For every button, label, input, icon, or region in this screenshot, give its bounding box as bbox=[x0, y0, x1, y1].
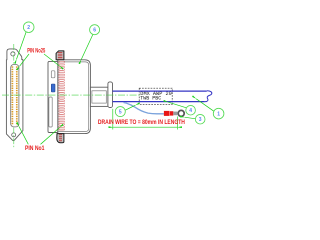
front view top screw hole bbox=[11, 52, 15, 56]
cable break squiggle bbox=[205, 91, 212, 102]
balloon 5 bbox=[115, 107, 125, 117]
dimension line bbox=[113, 126, 177, 128]
dimension extension line left bbox=[112, 109, 114, 130]
PIN No25 leader left bbox=[20, 54, 29, 66]
svg-text:TWB PBC: TWB PBC bbox=[140, 96, 161, 102]
terminal neck gray bbox=[173, 112, 177, 116]
balloon 4 bbox=[186, 105, 196, 115]
flange slot upper bbox=[51, 71, 55, 78]
svg-text:1: 1 bbox=[217, 111, 220, 117]
front view bottom screw hole bbox=[12, 133, 16, 137]
strain relief collar bbox=[108, 82, 113, 108]
bottom thumbscrew knob bbox=[57, 134, 64, 143]
balloon 6 bbox=[90, 25, 100, 35]
PIN No25 leader right bbox=[44, 54, 60, 66]
balloon 3 bbox=[195, 114, 205, 124]
side view front flange bbox=[48, 61, 58, 132]
cable top edge bbox=[113, 90, 207, 92]
balloon 2 bbox=[23, 22, 34, 33]
balloon 4 leader bbox=[168, 102, 187, 108]
front view pin slot bbox=[11, 65, 19, 127]
PIN No1 leader left bbox=[19, 127, 28, 145]
top wire clamp knob bbox=[56, 51, 64, 60]
drain wire bbox=[124, 103, 164, 114]
svg-text:PIN No25: PIN No25 bbox=[27, 48, 45, 54]
connector J1 front view body bbox=[6, 49, 23, 141]
connector side view body bbox=[58, 60, 91, 134]
svg-text:4: 4 bbox=[189, 108, 192, 114]
dimension extension line right bbox=[177, 117, 179, 130]
cable marking label box bbox=[139, 88, 172, 104]
flange latch (blue) bbox=[51, 84, 55, 92]
balloon 1 leader bbox=[196, 99, 214, 111]
svg-text:PIN No1: PIN No1 bbox=[25, 146, 45, 152]
flange slot lower tall bbox=[49, 97, 52, 127]
side view pin column left dashed edge bbox=[58, 61, 60, 131]
svg-text:DRAIN WIRE TO = 80mm IN LENGTH: DRAIN WIRE TO = 80mm IN LENGTH bbox=[98, 119, 185, 126]
svg-text:2: 2 bbox=[27, 25, 30, 31]
balloon 6 leader bbox=[81, 34, 93, 59]
balloon 2 leader bbox=[17, 32, 27, 59]
cable exit neck inner bbox=[92, 91, 106, 103]
centerline vertical lower (front view) bbox=[13, 128, 15, 148]
side view pin column (red) rungs bbox=[59, 61, 63, 131]
centerline vertical upper (front view) bbox=[13, 44, 15, 64]
side view pin column right dashed edge bbox=[63, 61, 65, 131]
ring terminal bbox=[178, 110, 184, 116]
cable exit neck outer bbox=[90, 87, 108, 106]
PIN No1 leader right bbox=[41, 128, 60, 145]
centerline horizontal bbox=[2, 94, 140, 96]
balloon 1 bbox=[213, 108, 224, 119]
pin column left (orange) bbox=[11, 66, 13, 125]
svg-text:6: 6 bbox=[93, 28, 96, 34]
svg-text:3: 3 bbox=[199, 117, 202, 123]
balloon 3 leader bbox=[185, 117, 196, 119]
redraw cable lines over box bbox=[139, 90, 173, 92]
crimp terminal red part bbox=[164, 111, 170, 116]
svg-text:5: 5 bbox=[119, 109, 122, 115]
balloon 5 leader bbox=[125, 105, 135, 110]
pin column right (orange) bbox=[16, 66, 18, 125]
cable bottom edge bbox=[113, 101, 205, 103]
side view body inner line bbox=[59, 62, 89, 132]
